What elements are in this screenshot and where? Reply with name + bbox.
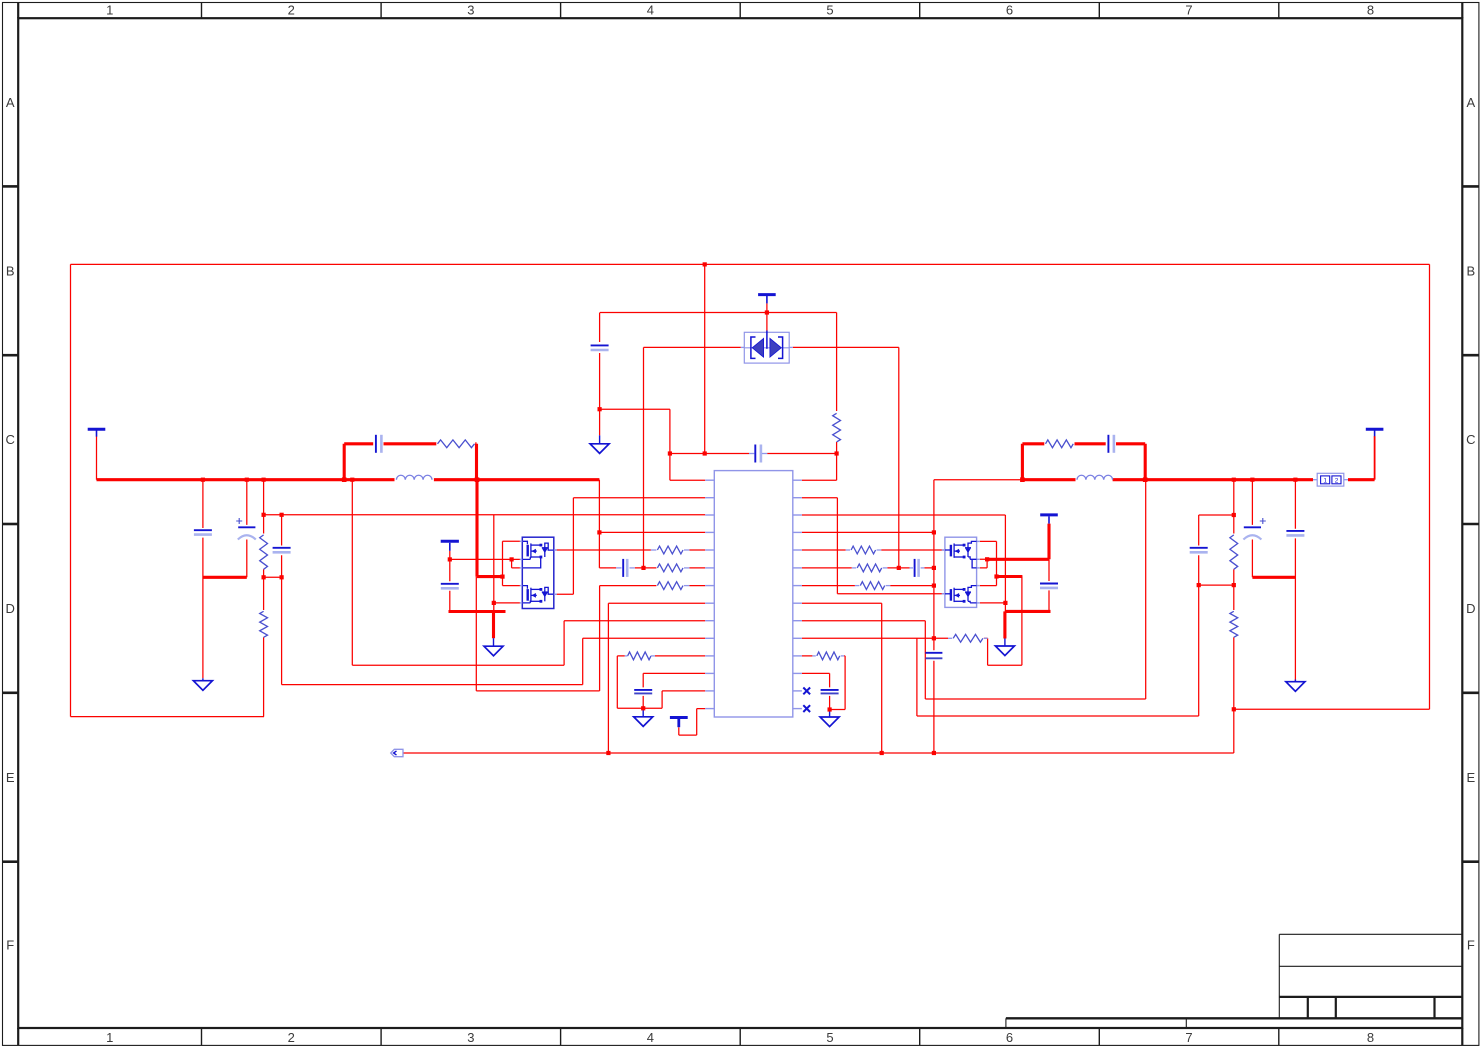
- svg-text:1: 1: [1323, 478, 1327, 485]
- svg-text:A: A: [6, 95, 15, 110]
- svg-text:5: 5: [826, 3, 833, 18]
- svg-text:A: A: [1466, 95, 1475, 110]
- svg-text:2: 2: [288, 1030, 295, 1045]
- svg-text:2: 2: [288, 3, 295, 18]
- svg-text:D: D: [6, 601, 15, 616]
- svg-text:1: 1: [106, 1030, 113, 1045]
- svg-text:4: 4: [647, 3, 654, 18]
- svg-text:C: C: [1466, 432, 1475, 447]
- svg-text:7: 7: [1185, 3, 1192, 18]
- svg-text:1: 1: [106, 3, 113, 18]
- svg-text:E: E: [6, 770, 15, 785]
- svg-text:C: C: [6, 432, 15, 447]
- svg-text:B: B: [6, 263, 15, 278]
- svg-text:6: 6: [1006, 1030, 1013, 1045]
- svg-text:F: F: [1467, 937, 1475, 952]
- svg-text:E: E: [1466, 770, 1475, 785]
- svg-text:8: 8: [1367, 1030, 1374, 1045]
- svg-text:3: 3: [467, 1030, 474, 1045]
- svg-text:8: 8: [1367, 3, 1374, 18]
- svg-text:6: 6: [1006, 3, 1013, 18]
- svg-text:F: F: [6, 937, 14, 952]
- svg-text:4: 4: [647, 1030, 654, 1045]
- svg-text:2: 2: [1335, 478, 1339, 485]
- svg-text:D: D: [1466, 601, 1475, 616]
- svg-text:5: 5: [826, 1030, 833, 1045]
- svg-text:3: 3: [467, 3, 474, 18]
- svg-text:7: 7: [1185, 1030, 1192, 1045]
- svg-text:B: B: [1466, 263, 1475, 278]
